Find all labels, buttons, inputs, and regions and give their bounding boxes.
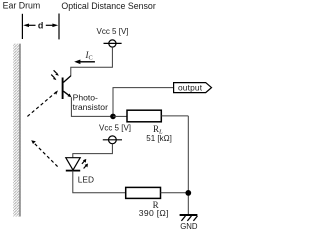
current arrow IC: [74, 60, 95, 65]
right rail wire: [187, 116, 189, 215]
ground: [180, 215, 198, 221]
dimension arrow d: [23, 21, 58, 31]
wire node A to RL: [113, 115, 127, 117]
svg-text:Ear Drum: Ear Drum: [3, 1, 41, 11]
svg-text:Vcc 5 [V]: Vcc 5 [V]: [99, 123, 131, 132]
vcc supply V2 lower: [103, 136, 122, 144]
LED D1: [66, 158, 80, 171]
svg-text:GND: GND: [180, 222, 198, 231]
LED emission arrows: [82, 159, 88, 169]
resistor RL: [127, 110, 161, 122]
svg-text:LED: LED: [78, 175, 94, 185]
svg-text:IC: IC: [85, 50, 93, 61]
wire emitter to node A: [71, 97, 113, 116]
svg-text:Photo-: Photo-: [73, 92, 98, 102]
wire node A to output flag: [113, 88, 174, 117]
svg-text:390 [Ω]: 390 [Ω]: [139, 208, 169, 218]
wire RL to right rail: [161, 115, 188, 117]
svg-text:51 [kΩ]: 51 [kΩ]: [146, 134, 172, 143]
dashed light ray LED to wall: [31, 140, 57, 166]
dimension tick right: [58, 14, 60, 40]
wire LED cathode to R: [73, 171, 126, 193]
ear drum wall: [13, 44, 21, 217]
wire vcc1 to collector: [71, 47, 113, 76]
svg-text:d: d: [38, 21, 44, 31]
dimension tick left: [21, 14, 23, 39]
label Photo-transistor: [73, 92, 108, 112]
phototransistor Q1: [63, 76, 72, 99]
svg-text:output: output: [178, 82, 203, 92]
light arrows into phototransistor: [51, 70, 59, 80]
svg-text:Optical Distance Sensor: Optical Distance Sensor: [61, 1, 155, 11]
svg-text:Vcc 5 [V]: Vcc 5 [V]: [97, 27, 129, 36]
svg-text:transistor: transistor: [73, 102, 108, 112]
dashed light ray wall to phototransistor: [27, 90, 58, 116]
wire R to node B: [161, 192, 189, 194]
wire vcc2 to LED anode: [73, 144, 113, 158]
node A junction dot: [110, 114, 116, 120]
output flag: [174, 83, 212, 93]
node B junction dot: [185, 190, 191, 196]
resistor R: [126, 187, 161, 198]
vcc supply V1 top: [104, 40, 122, 47]
